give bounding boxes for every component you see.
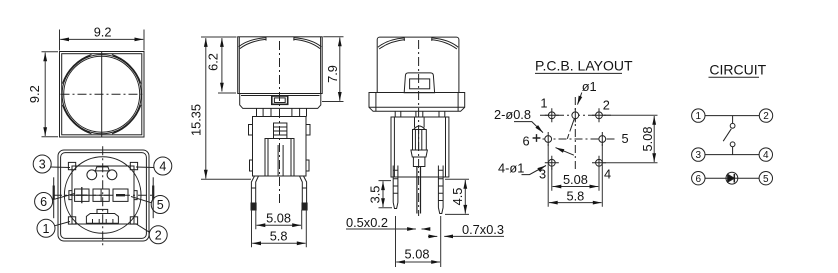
pcb dim 5.8: extension lines — [548, 144, 602, 207]
svg-text:4.5: 4.5 — [450, 188, 465, 206]
svg-text:5.08: 5.08 — [563, 172, 588, 187]
hole peg (top center) — [572, 112, 579, 119]
balloon 5 — [151, 196, 169, 214]
title underline — [535, 72, 622, 74]
svg-text:4: 4 — [604, 167, 611, 182]
stub left — [395, 111, 401, 117]
wire row 2 — [705, 154, 759, 156]
terminal 4 — [759, 148, 772, 161]
balloon 5 leader — [131, 197, 152, 203]
svg-text:1: 1 — [43, 222, 50, 236]
dim 3.5 dimension line — [382, 181, 384, 207]
side wing right — [152, 177, 154, 218]
top view horizontal centerline (dash-dot) — [61, 93, 144, 95]
flange lip line — [369, 106, 465, 108]
svg-text:3.5: 3.5 — [368, 186, 383, 204]
dimension 9.2 horizontal: dimension line — [60, 38, 143, 40]
balloon 6 leader — [52, 194, 74, 200]
balloon 1 leader — [55, 222, 71, 226]
dim 15.35 text — [189, 104, 204, 136]
balloon 2 — [149, 226, 167, 244]
corner arc top-right (double) — [112, 55, 141, 84]
cap outline (side) — [238, 37, 323, 94]
contact stub upper — [732, 116, 734, 124]
dim 7.9 extension lines — [322, 37, 344, 102]
LED cylinder — [413, 130, 427, 151]
dim 5.8 dimension line — [252, 242, 305, 244]
svg-text:1: 1 — [696, 111, 702, 122]
svg-text:5.8: 5.8 — [270, 229, 288, 244]
bottom tab — [86, 214, 118, 224]
cap top ticks — [404, 37, 432, 41]
hole 2 — [596, 112, 603, 119]
label dia1 leader — [578, 93, 582, 105]
svg-text:1: 1 — [540, 96, 547, 111]
body inner verticals — [394, 117, 445, 177]
LED collar — [411, 150, 428, 157]
svg-text:6: 6 — [522, 133, 529, 148]
body side lower tab right — [306, 160, 309, 171]
base square — [72, 166, 134, 224]
pcb dim 5.08 bottom: dimension line — [553, 186, 599, 188]
button circle inner — [64, 56, 140, 132]
corner arc bottom-right (double) — [112, 105, 141, 134]
leader arrow to hole 6 — [556, 148, 574, 156]
bottom view vertical centerline — [102, 146, 104, 245]
dim 6.2 text — [205, 53, 220, 71]
dia1 leader continuation through hole — [567, 119, 574, 139]
LED triangle — [728, 174, 735, 182]
locating peg right — [107, 170, 117, 180]
pcb dim 5.8: dimension line — [549, 202, 602, 204]
cap dome arc right (double) — [431, 38, 458, 49]
top center tab — [95, 167, 109, 171]
cap dome arc left (double) — [378, 38, 405, 49]
svg-text:2: 2 — [763, 111, 769, 122]
pcb dim 5.08 vertical: dimension line — [653, 116, 655, 162]
hole 3 — [548, 159, 555, 166]
right leg solder tip — [302, 203, 307, 210]
corner pad 3 (top-left) — [68, 162, 75, 169]
svg-text:CIRCUIT: CIRCUIT — [709, 61, 766, 77]
dim 7.9 dimension line — [339, 38, 341, 101]
svg-text:5.08: 5.08 — [405, 246, 430, 261]
side notch right — [134, 191, 137, 200]
cap dome arc right (double) — [293, 38, 321, 49]
dimension 9.2 vertical: extension lines — [42, 52, 59, 137]
corner pad 1 (bottom-left) — [68, 217, 75, 224]
dim 4.5 extension lines — [445, 179, 469, 214]
terminal 6 — [692, 172, 705, 185]
LED terminal minus (pin 5) — [113, 189, 128, 201]
LED anode lead — [726, 177, 728, 179]
svg-text:2: 2 — [603, 98, 610, 113]
svg-text:5: 5 — [157, 198, 164, 212]
pcb dim 5.08 vertical: extension lines — [603, 115, 658, 163]
svg-text:5: 5 — [621, 131, 628, 146]
balloon 3 — [33, 155, 51, 173]
LED cylinder hatch — [415, 130, 421, 151]
corner arc bottom-left (double) — [62, 105, 91, 134]
svg-text:7.9: 7.9 — [325, 65, 340, 83]
dim 4.5 text — [450, 188, 465, 206]
button circle outer — [62, 55, 141, 134]
wire row 1 — [705, 115, 759, 117]
svg-text:5: 5 — [763, 174, 769, 185]
label 0.7x0.3 leader — [444, 235, 504, 237]
top view inner square — [62, 54, 142, 135]
label 4-dia1 leader — [522, 166, 547, 175]
pcb vertical centerline — [574, 97, 576, 172]
svg-text:ø1: ø1 — [582, 79, 597, 94]
stub center — [416, 111, 423, 117]
corner pad 2 (bottom-right) — [130, 217, 137, 224]
plunger stem — [274, 123, 287, 139]
dim 6.2 extension line — [218, 92, 236, 94]
body outline — [253, 117, 307, 177]
hole 5 — [599, 136, 606, 143]
contact lower — [730, 142, 735, 147]
corner arc top-left (double) — [62, 55, 91, 84]
dim 6.2 dimension line — [221, 38, 223, 91]
dim 5.08 dimension line — [257, 224, 302, 226]
svg-text:6.2: 6.2 — [205, 53, 220, 71]
svg-text:9.2: 9.2 — [94, 25, 112, 40]
dim 15.35 extension lines — [201, 37, 251, 179]
hole 6 — [545, 136, 552, 143]
flange top lip — [241, 95, 320, 97]
terminal 2 — [759, 109, 772, 122]
terminal 1 — [692, 109, 705, 122]
side view centerline — [279, 41, 281, 206]
row2 centerline — [543, 138, 617, 140]
dim 5.08 extension lines — [256, 210, 302, 230]
svg-text:5.8: 5.8 — [567, 188, 585, 203]
hole 1 — [548, 112, 555, 119]
svg-text:4-ø1: 4-ø1 — [498, 161, 524, 176]
contact stub lower — [732, 147, 734, 155]
LED cathode bar — [733, 174, 735, 183]
balloon 2 leader — [136, 224, 150, 233]
inner housing — [265, 139, 294, 177]
LED base block — [413, 157, 425, 167]
pcb dim 5.08 bottom: extension lines — [552, 168, 599, 191]
balloon 3 leader — [51, 166, 70, 169]
left leg solder tip — [251, 203, 256, 210]
housing outer rounded square — [58, 150, 149, 241]
svg-text:5.08: 5.08 — [640, 127, 655, 152]
left leg — [251, 176, 258, 207]
dim 5.08 (front) dimension line — [396, 261, 440, 263]
dim 7.9 text — [325, 65, 340, 83]
neck section — [257, 108, 307, 116]
top view vertical centerline — [101, 52, 103, 138]
balloon 1 — [37, 219, 55, 237]
LED holder top — [415, 117, 425, 128]
dim 3.5 text — [368, 186, 383, 204]
svg-text:4: 4 — [763, 150, 769, 161]
inner stem lines — [268, 139, 291, 177]
flange inner verticals — [376, 93, 458, 112]
balloon 4 leader — [136, 166, 154, 169]
cap outline (front) — [377, 37, 459, 92]
svg-text:3: 3 — [39, 158, 46, 172]
dimension 9.2 horizontal: extension lines — [60, 30, 145, 51]
dim 3.5 extension lines — [379, 181, 393, 208]
body side tab right — [306, 125, 310, 136]
svg-text:6: 6 — [40, 195, 47, 209]
dimension 9.2 vertical: dimension line — [44, 53, 46, 137]
svg-text:9.2: 9.2 — [27, 85, 42, 103]
switch lever — [723, 129, 731, 141]
top view outer square — [60, 52, 145, 138]
button circle (bottom) — [64, 157, 141, 234]
svg-text:0.5x0.2: 0.5x0.2 — [346, 215, 388, 230]
label 2-dia0.8 leader — [514, 122, 543, 133]
window outer — [404, 73, 434, 93]
svg-text:5.08: 5.08 — [266, 210, 291, 225]
body side lower tab left — [250, 160, 253, 171]
pcb dim 5.08 vertical: text — [640, 127, 655, 152]
flange (front) — [369, 93, 465, 112]
wire row 3 left segment — [705, 177, 726, 179]
terminal 3 — [692, 148, 705, 161]
bottom tab top rect — [97, 209, 108, 213]
svg-text:2: 2 — [155, 228, 162, 242]
wire row 3 right segment — [738, 177, 759, 179]
body (front) — [391, 117, 449, 177]
side wing left — [53, 177, 55, 218]
svg-text:4: 4 — [159, 160, 166, 174]
svg-text:2-ø0.8: 2-ø0.8 — [494, 107, 531, 122]
svg-text:P.C.B. LAYOUT: P.C.B. LAYOUT — [535, 58, 633, 74]
corner pad 4 (top-right) — [130, 162, 137, 169]
dim 4.5 dimension line — [464, 180, 466, 214]
bottom view horizontal centerline — [53, 194, 153, 196]
window inner — [410, 79, 430, 89]
balloon 6 — [35, 193, 53, 211]
svg-text:0.7x0.3: 0.7x0.3 — [462, 222, 504, 237]
dim 15.35 dimension line — [205, 38, 207, 179]
housing inner rounded line — [61, 153, 147, 239]
cap dome arc left (double) — [239, 38, 267, 49]
center terminal — [93, 189, 109, 201]
hole 4 — [596, 159, 603, 166]
svg-text:15.35: 15.35 — [189, 104, 204, 136]
locating peg left — [87, 170, 97, 180]
row1 centerline — [540, 114, 611, 116]
cap top ticks — [266, 37, 294, 41]
dimension 9.2 vertical: text (rotated) — [27, 85, 42, 103]
plunger window inner — [274, 98, 285, 103]
right pin (front) — [438, 166, 443, 214]
svg-text:6: 6 — [696, 174, 702, 185]
right leg — [300, 176, 307, 207]
terminal 5 — [759, 172, 772, 185]
plunger window outer — [272, 96, 288, 104]
dim 5.8 extension lines — [252, 210, 307, 248]
LED terminal plus (pin 6) — [75, 189, 89, 201]
flange — [240, 94, 321, 109]
LED circle — [726, 172, 738, 184]
left pin (front) — [393, 166, 398, 209]
dim 5.08 (front) extension lines — [396, 216, 441, 267]
balloon 4 — [154, 157, 172, 175]
LED dome — [414, 126, 425, 130]
svg-text:3: 3 — [696, 150, 702, 161]
title underline — [709, 76, 760, 78]
contact upper — [730, 123, 735, 128]
side notch left — [69, 191, 72, 200]
label 0.5x0.2 leader — [346, 228, 412, 230]
LED cathode lead — [734, 177, 738, 179]
LED legs — [417, 167, 421, 214]
body side tab left — [249, 125, 253, 136]
bottom tab marks — [93, 219, 113, 223]
cap inner side lines — [239, 37, 320, 94]
front view centerline — [418, 40, 420, 216]
stub right — [439, 111, 445, 117]
